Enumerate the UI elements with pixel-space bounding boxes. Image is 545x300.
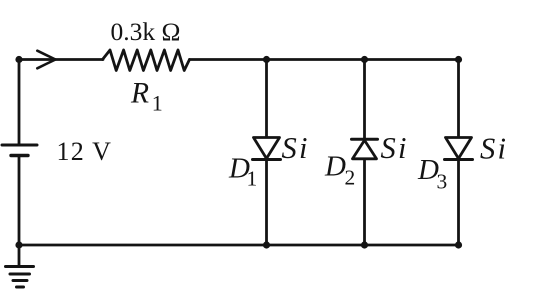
ground symbol: [6, 267, 34, 288]
svg-text:Si: Si: [282, 131, 310, 165]
wire left rail lower (battery to bottom rail): [18, 157, 21, 245]
diode D3 cathode bar: [445, 158, 473, 161]
node bottom D1: [263, 241, 270, 248]
wire top-left horizontal: [19, 58, 103, 61]
svg-text:R: R: [130, 78, 149, 110]
wire branch D3 (right rail): [457, 60, 460, 246]
node bottom D2: [361, 241, 368, 248]
wire left rail upper (to battery): [18, 60, 21, 145]
diode D2 cathode bar: [352, 138, 378, 141]
diode D2 triangle: [353, 140, 377, 159]
node bottom-left: [15, 241, 22, 248]
node top D1: [263, 56, 270, 63]
current arrow: [37, 51, 55, 69]
wire branch D2: [363, 60, 366, 246]
wire branch D1: [265, 60, 268, 246]
svg-text:3: 3: [437, 170, 448, 194]
battery V1 12V: long plate: [2, 144, 37, 147]
svg-text:1: 1: [247, 167, 258, 191]
node top-left: [15, 56, 22, 63]
diode D1 cathode bar: [253, 158, 281, 161]
wire ground stem: [18, 245, 21, 266]
resistor R1: [103, 50, 190, 71]
node top D2: [361, 56, 368, 63]
svg-text:12 V: 12 V: [57, 137, 113, 166]
node bottom-right: [455, 241, 462, 248]
svg-text:Si: Si: [480, 132, 508, 166]
node top-right: [455, 56, 462, 63]
wire bottom rail: [19, 244, 459, 247]
battery V1 12V: short plate: [11, 154, 28, 157]
svg-text:2: 2: [345, 166, 356, 190]
diode D3 triangle: [446, 138, 472, 159]
svg-text:0.3k Ω: 0.3k Ω: [111, 17, 181, 46]
svg-text:1: 1: [152, 91, 163, 116]
wire top-right horizontal: [190, 58, 459, 61]
svg-text:Si: Si: [381, 131, 409, 165]
svg-text:D: D: [324, 151, 346, 183]
diode D1 triangle: [254, 138, 280, 159]
